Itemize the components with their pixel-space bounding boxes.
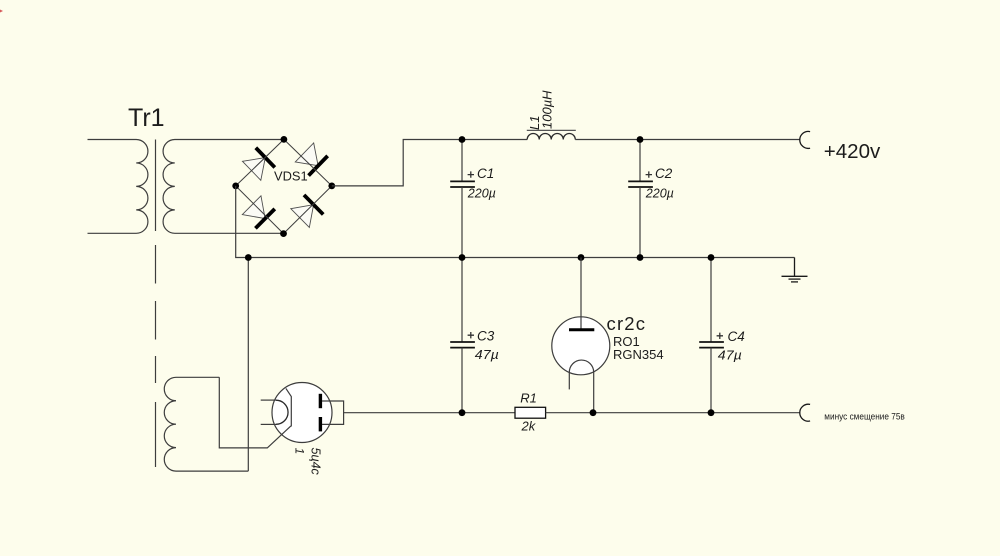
svg-text:47µ: 47µ bbox=[718, 348, 742, 362]
wire R1 to minus terminal bbox=[546, 412, 801, 414]
red artifact top-left bbox=[0, 10, 3, 13]
tube U1 cr2c stabilizer bbox=[552, 258, 610, 413]
svg-text:C4: C4 bbox=[728, 329, 745, 344]
capacitor C1 bbox=[450, 140, 475, 258]
inductor L1 core line bbox=[527, 129, 576, 131]
svg-text:2k: 2k bbox=[521, 419, 537, 434]
node bottom wire C4 bbox=[708, 409, 715, 416]
svg-text:C2: C2 bbox=[655, 166, 673, 181]
wire output tube to R1 bbox=[344, 412, 515, 414]
label C1 plus bbox=[468, 171, 474, 177]
svg-text:5ц4с: 5ц4с bbox=[309, 448, 323, 476]
svg-text:+420v: +420v bbox=[824, 140, 881, 163]
resistor R1 bbox=[515, 407, 546, 418]
diode VDS1-D3 bottom-left bbox=[242, 195, 275, 228]
diode VDS1-D2 top-right bbox=[295, 143, 328, 176]
diode VDS1-D4 bottom-right bbox=[290, 195, 323, 228]
svg-text:1: 1 bbox=[292, 448, 306, 455]
anode bracket 5ts4s bbox=[322, 401, 344, 424]
transformer Tr1 primary winding bbox=[88, 140, 148, 234]
node ground rail heater drop bbox=[245, 254, 252, 261]
wire heater top lead to tube bbox=[219, 377, 291, 448]
node bridge bottom bbox=[280, 230, 287, 237]
svg-text:47µ: 47µ bbox=[475, 348, 499, 362]
inductor L1 bbox=[527, 133, 575, 139]
anode bar cr2c bbox=[569, 328, 594, 331]
terminal minus bias bbox=[800, 404, 810, 421]
svg-text:C3: C3 bbox=[477, 329, 495, 344]
cathode 5ts4s bbox=[286, 388, 291, 426]
capacitor C3 bbox=[450, 258, 475, 413]
svg-text:220µ: 220µ bbox=[467, 186, 496, 200]
node ground rail C2 bottom bbox=[637, 254, 644, 261]
svg-text:220µ: 220µ bbox=[645, 186, 674, 200]
heater stub bottom 5ts4s bbox=[261, 423, 276, 425]
wire bridge left node to ground rail bbox=[236, 186, 795, 258]
filament right leg cr2c bbox=[593, 372, 595, 413]
svg-text:R1: R1 bbox=[520, 391, 537, 406]
label C2 plus bbox=[646, 171, 652, 177]
transformer Tr1 core bbox=[155, 140, 157, 468]
node ground rail C3 top bbox=[459, 254, 466, 261]
capacitor C2 bbox=[628, 140, 653, 258]
wire L1 to +420v terminal bbox=[575, 139, 800, 141]
node ground rail C4 top bbox=[708, 254, 715, 261]
anode bar bottom 5ts4s bbox=[319, 417, 322, 431]
svg-text:Tr1: Tr1 bbox=[128, 104, 165, 132]
transformer Tr1 heater winding bbox=[164, 377, 248, 471]
bridge VDS1 edges bbox=[236, 139, 332, 233]
capacitor C4 bbox=[699, 258, 724, 413]
node bridge right bbox=[328, 183, 335, 190]
label C3 plus bbox=[468, 332, 474, 338]
wire bridge right node to top rail step bbox=[332, 140, 527, 186]
svg-text:VDS1: VDS1 bbox=[274, 168, 308, 183]
tube V1 5ts4s envelope bbox=[272, 383, 332, 443]
label C4 plus bbox=[717, 333, 723, 339]
filament left leg cr2c bbox=[568, 373, 570, 390]
tube V1 5ts4s internals bbox=[261, 388, 344, 431]
diode VDS1-D1 top-left bbox=[242, 148, 275, 181]
node bottom wire cr2c leg bbox=[590, 409, 597, 416]
node bridge left bbox=[232, 183, 239, 190]
node C2 top bbox=[637, 136, 644, 143]
transformer Tr1 secondary HV winding bbox=[163, 140, 284, 234]
terminal +420v bbox=[800, 131, 810, 148]
node bridge top bbox=[281, 136, 288, 143]
svg-text:RGN354: RGN354 bbox=[613, 347, 664, 362]
ground symbol bbox=[782, 258, 808, 282]
filament arc 5ts4s bbox=[276, 400, 288, 424]
svg-text:C1: C1 bbox=[477, 166, 494, 181]
anode bar top 5ts4s bbox=[319, 394, 322, 408]
svg-text:минус смещение 75в: минус смещение 75в bbox=[824, 411, 905, 422]
node ground rail cr2c top bbox=[578, 254, 585, 261]
svg-text:100µH: 100µH bbox=[540, 90, 555, 129]
heater stub top 5ts4s bbox=[261, 399, 276, 401]
svg-text:cr2c: cr2c bbox=[607, 313, 647, 334]
node bottom wire C3 bbox=[459, 409, 466, 416]
wire ground drop to heater winding bottom bbox=[247, 258, 249, 472]
filament arc cr2c bbox=[569, 360, 593, 372]
node C1 top bbox=[459, 136, 466, 143]
